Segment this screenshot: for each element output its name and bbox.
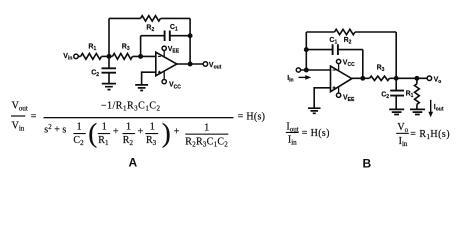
arrow Iin current direction <box>299 75 312 80</box>
op-amp U2 <box>331 66 352 92</box>
terminal VEE B <box>336 86 340 97</box>
wire junction up to R2 feedback <box>108 18 110 56</box>
svg-text:Iout: Iout <box>286 121 298 133</box>
wire R3 to op-amp <box>133 55 156 57</box>
svg-text:s2 + s: s2 + s <box>44 123 66 136</box>
ground under C2 <box>102 84 116 90</box>
svg-text:R1: R1 <box>406 91 414 100</box>
wire C1 branch horizontal <box>141 35 191 37</box>
svg-text:Vout: Vout <box>12 101 28 113</box>
equation A: big left paren <box>88 118 97 148</box>
wire top right segment <box>161 17 191 19</box>
svg-text:R2: R2 <box>123 135 134 147</box>
svg-text:Iin: Iin <box>287 75 293 84</box>
junction node at R1/R3/C2 <box>107 54 112 59</box>
equation A: equals H(s) <box>238 112 266 123</box>
ground at op-amp plus input A <box>135 85 148 91</box>
resistor R2 <box>141 16 161 21</box>
wire right vertical R2 feedback <box>395 32 397 78</box>
svg-text:Vin: Vin <box>12 121 25 133</box>
terminal VCC A <box>162 71 166 83</box>
svg-text:= H(s): = H(s) <box>302 128 330 139</box>
resistor R1 <box>81 54 102 60</box>
wire C1 branch vertical <box>140 36 142 57</box>
svg-text:C2: C2 <box>381 92 389 101</box>
equation A: fraction 1/C2 <box>73 122 85 148</box>
junction node C1 line left <box>304 47 309 52</box>
equation A: big right paren <box>162 118 171 148</box>
junction node R1 tap <box>414 76 419 81</box>
svg-text:Vo: Vo <box>397 122 408 134</box>
svg-text:1: 1 <box>102 122 107 133</box>
wire C1 right vertical B <box>362 50 364 79</box>
terminal VEE A <box>162 46 166 57</box>
label Vo <box>434 76 442 85</box>
equation A: fraction 1/R3 <box>145 122 158 148</box>
terminal Vo <box>427 76 432 81</box>
wire C1 line B <box>306 49 363 51</box>
equation A: plus 2 <box>138 126 144 137</box>
junction node input B <box>304 68 309 73</box>
svg-text:+: + <box>138 126 144 137</box>
wire plus input to ground B <box>314 88 330 108</box>
svg-text:R2R3C1C2: R2R3C1C2 <box>185 137 228 149</box>
label C1 <box>170 24 178 33</box>
svg-text:VEE: VEE <box>343 94 355 103</box>
label Iout <box>434 104 444 113</box>
svg-text:R3: R3 <box>122 44 130 53</box>
svg-text:Iin: Iin <box>399 136 408 148</box>
svg-text:Vout: Vout <box>209 62 222 71</box>
wire top right segment B <box>355 31 396 33</box>
junction node output A <box>188 62 193 67</box>
wire R3 to Vo <box>390 77 428 79</box>
capacitor C1 B <box>333 44 338 55</box>
wire op-amp output B <box>352 77 370 79</box>
op-amp U1 <box>156 52 177 76</box>
svg-text:R3: R3 <box>146 135 157 147</box>
label VEE A <box>168 46 180 55</box>
label R2 B <box>344 37 352 46</box>
svg-text:C2: C2 <box>73 135 84 147</box>
equation A: fraction 1/R2 <box>123 122 136 148</box>
equation B2: equals R1H(s) <box>410 129 450 141</box>
terminal Vout <box>203 62 208 67</box>
junction node C1 to output vertical <box>188 33 193 38</box>
label C2 <box>91 69 99 78</box>
svg-text:VCC: VCC <box>169 82 181 91</box>
label VCC A <box>169 82 181 91</box>
label VCC B <box>343 59 355 68</box>
label Vout <box>209 62 222 71</box>
svg-text:R1: R1 <box>88 44 96 53</box>
wire Vin to R1 <box>78 55 81 57</box>
label R3 <box>122 44 130 53</box>
svg-text:Iout: Iout <box>434 104 444 113</box>
ground at op-amp plus input B <box>308 108 321 113</box>
equation B2: Vo over Iin <box>396 122 409 148</box>
resistor R3 <box>113 54 133 60</box>
terminal Vin <box>74 54 79 59</box>
junction node output B <box>360 76 365 81</box>
capacitor C2 B <box>390 91 404 96</box>
label R1 <box>88 44 96 53</box>
svg-text:C1: C1 <box>329 37 337 46</box>
wire op-amp output <box>177 63 203 65</box>
wire node to R1 B <box>416 78 418 84</box>
wire input node up <box>305 32 307 70</box>
equation A: plus 3 <box>174 126 180 137</box>
label R2 <box>146 24 154 33</box>
node Vin label <box>63 53 72 62</box>
label C2 B <box>381 92 389 101</box>
equation B1: equals H(s) <box>302 128 330 139</box>
svg-text:= H(s): = H(s) <box>238 112 266 123</box>
equation B1: Iout over Iin <box>286 121 299 146</box>
wire R1 to ground B <box>416 104 418 109</box>
wire Iin to op-amp <box>300 69 330 71</box>
equation A: equals <box>31 112 37 123</box>
svg-text:=: = <box>31 112 37 123</box>
equation A: Vout over Vin <box>11 101 28 133</box>
svg-text:B: B <box>363 157 372 171</box>
label B <box>363 157 372 171</box>
label R1 B <box>406 91 414 100</box>
svg-text:+: + <box>113 126 119 137</box>
svg-text:C1: C1 <box>170 24 178 33</box>
svg-text:−1/R1R3C1C2: −1/R1R3C1C2 <box>101 100 161 112</box>
svg-text:R2: R2 <box>146 24 154 33</box>
svg-text:1: 1 <box>204 123 209 134</box>
equation A: fraction 1 over R2R3C1C2 <box>185 123 228 149</box>
arrow Iout <box>428 100 433 118</box>
wire top left segment B <box>306 31 334 33</box>
svg-text:1: 1 <box>150 122 155 133</box>
svg-text:R2: R2 <box>344 37 352 46</box>
capacitor C2 <box>102 68 117 72</box>
equation A: numerator <box>101 100 161 112</box>
wire right vertical to output <box>189 18 191 64</box>
ground under R1 B <box>410 109 425 114</box>
label A <box>129 156 138 170</box>
wire C2 to ground <box>108 73 110 84</box>
svg-text:VEE: VEE <box>168 46 180 55</box>
wire node to C2 B <box>395 78 397 90</box>
wire plus input to ground <box>142 72 156 85</box>
svg-text:): ) <box>162 118 171 148</box>
svg-text:A: A <box>129 156 138 170</box>
ground under C2 B <box>389 109 404 114</box>
label Iin <box>287 75 293 84</box>
label R3 B <box>377 65 385 74</box>
junction node at minus input <box>138 54 143 59</box>
label C1 B <box>329 37 337 46</box>
capacitor C1 <box>165 31 170 42</box>
svg-text:1: 1 <box>77 122 82 133</box>
svg-text:R1: R1 <box>98 135 109 147</box>
svg-text:1: 1 <box>126 122 131 133</box>
junction node C2 tap <box>394 76 399 81</box>
equation A: fraction 1/R1 <box>98 122 110 148</box>
svg-text:= R1H(s): = R1H(s) <box>410 129 450 141</box>
equation A: plus 1 <box>113 126 119 137</box>
terminal Iin <box>296 68 300 72</box>
svg-text:VCC: VCC <box>343 59 355 68</box>
label VEE B <box>343 94 355 103</box>
wire top left segment <box>109 17 141 19</box>
resistor R1 B <box>415 84 420 105</box>
resistor R2 B <box>335 29 356 34</box>
svg-text:Vo: Vo <box>434 76 442 85</box>
svg-text:+: + <box>174 126 180 137</box>
capacitor C2 vertical wire <box>108 56 110 68</box>
equation A: denominator s2+s <box>44 123 66 136</box>
equation A: main fraction bar <box>44 117 234 118</box>
svg-text:Iin: Iin <box>288 135 297 147</box>
svg-text:C2: C2 <box>91 69 99 78</box>
svg-text:(: ( <box>88 118 97 148</box>
wire R1 to R3 <box>102 55 113 57</box>
terminal VCC B <box>336 59 340 71</box>
wire C2 to ground B <box>395 96 397 110</box>
svg-text:R3: R3 <box>377 65 385 74</box>
resistor R3 B <box>370 76 390 80</box>
svg-text:Vin: Vin <box>63 53 72 62</box>
